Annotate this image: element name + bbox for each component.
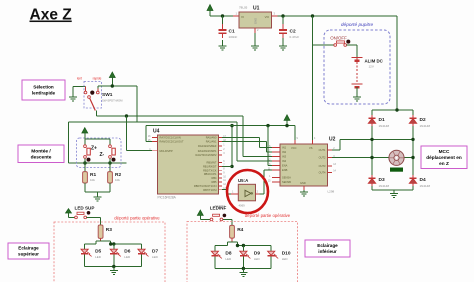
svg-text:ON/OFF: ON/OFF xyxy=(330,35,347,40)
svg-text:LEDINF: LEDINF xyxy=(210,206,227,211)
svg-text:0.47uF: 0.47uF xyxy=(290,35,300,39)
svg-text:IN4: IN4 xyxy=(282,159,287,163)
svg-text:OUT3: OUT3 xyxy=(319,164,326,168)
svg-text:descente: descente xyxy=(31,154,52,160)
svg-text:ENB: ENB xyxy=(282,168,288,172)
svg-text:RA1/AN1: RA1/AN1 xyxy=(206,140,217,144)
svg-text:déporté partie opérative: déporté partie opérative xyxy=(114,216,160,221)
svg-text:100nF: 100nF xyxy=(229,35,238,39)
svg-text:LED: LED xyxy=(95,255,102,259)
svg-text:VCC: VCC xyxy=(291,146,297,150)
svg-text:RB0/INT: RB0/INT xyxy=(207,161,217,165)
svg-text:ALIM DC: ALIM DC xyxy=(365,59,384,64)
svg-text:RB4: RB4 xyxy=(211,176,217,180)
svg-text:IN3: IN3 xyxy=(282,155,287,159)
svg-text:inférieur: inférieur xyxy=(318,249,337,254)
svg-text:RA4/T0CKI/CMP2: RA4/T0CKI/CMP2 xyxy=(195,153,217,157)
svg-text:1N4148: 1N4148 xyxy=(420,184,431,188)
svg-text:U4: U4 xyxy=(153,129,160,135)
svg-text:1N4148: 1N4148 xyxy=(379,184,390,188)
svg-text:OUT1: OUT1 xyxy=(319,148,326,152)
svg-text:D2: D2 xyxy=(420,117,426,123)
svg-text:SENSB: SENSB xyxy=(282,180,291,184)
svg-text:SW1: SW1 xyxy=(102,92,113,98)
svg-text:lent/rapide: lent/rapide xyxy=(32,91,56,96)
svg-text:1N4148: 1N4148 xyxy=(420,124,431,128)
svg-text:D10: D10 xyxy=(282,251,291,257)
svg-text:ENA: ENA xyxy=(282,164,288,168)
svg-text:R4: R4 xyxy=(237,227,243,233)
svg-text:LED SUP: LED SUP xyxy=(75,206,95,211)
svg-text:10k: 10k xyxy=(90,178,95,182)
svg-text:GND: GND xyxy=(300,181,306,185)
svg-text:rapide: rapide xyxy=(93,77,102,81)
svg-text:R3: R3 xyxy=(106,227,112,233)
svg-text:Sélection: Sélection xyxy=(33,85,54,90)
svg-text:D3: D3 xyxy=(379,177,385,183)
svg-text:RB6/T1OSO/T1CKI: RB6/T1OSO/T1CKI xyxy=(194,184,217,188)
svg-text:OUT4: OUT4 xyxy=(319,170,326,174)
svg-text:MCLR/VPP: MCLR/VPP xyxy=(160,149,174,153)
svg-text:RA0/AN0: RA0/AN0 xyxy=(206,136,217,140)
svg-text:D9: D9 xyxy=(254,251,260,257)
svg-text:U5:A: U5:A xyxy=(238,178,249,183)
svg-text:LED: LED xyxy=(282,257,289,261)
svg-text:Eclairage: Eclairage xyxy=(317,243,338,248)
svg-text:Axe Z: Axe Z xyxy=(30,7,73,24)
svg-text:L298: L298 xyxy=(328,190,335,194)
svg-text:PIC16F628A: PIC16F628A xyxy=(158,196,177,200)
svg-text:en Z: en Z xyxy=(439,161,449,166)
svg-text:LED: LED xyxy=(152,255,159,259)
svg-text:Z+: Z+ xyxy=(91,146,97,152)
svg-text:C2: C2 xyxy=(290,29,296,35)
svg-text:déporté pupitre: déporté pupitre xyxy=(341,22,374,28)
svg-text:VO: VO xyxy=(265,15,270,19)
svg-text:Eclairage: Eclairage xyxy=(18,246,39,251)
svg-text:GND: GND xyxy=(254,18,258,24)
svg-text:lent: lent xyxy=(77,77,82,81)
svg-text:RA6/OSC2/CLKOUT: RA6/OSC2/CLKOUT xyxy=(160,140,184,144)
svg-text:RB2/TX/CK: RB2/TX/CK xyxy=(203,168,217,172)
svg-text:IN2: IN2 xyxy=(282,150,287,154)
svg-text:Montée /: Montée / xyxy=(31,148,51,154)
svg-text:12V: 12V xyxy=(369,64,374,68)
svg-text:IN1: IN1 xyxy=(282,146,287,150)
svg-text:supérieur: supérieur xyxy=(18,252,39,257)
svg-text:déplacement en: déplacement en xyxy=(426,155,462,160)
svg-text:SW-SPDT-MOM: SW-SPDT-MOM xyxy=(102,99,123,103)
svg-text:RA7/OSC1/CLKIN: RA7/OSC1/CLKIN xyxy=(160,136,181,140)
svg-text:MCC: MCC xyxy=(439,149,450,154)
svg-text:D5: D5 xyxy=(95,249,101,255)
svg-text:RB1/RX/DT: RB1/RX/DT xyxy=(203,165,217,169)
svg-text:RB7/T1OSI: RB7/T1OSI xyxy=(203,188,217,192)
svg-text:SENSA: SENSA xyxy=(282,176,291,180)
svg-text:D4: D4 xyxy=(420,177,426,183)
svg-text:D8: D8 xyxy=(225,251,231,257)
svg-text:U1: U1 xyxy=(253,6,260,12)
svg-text:Z-: Z- xyxy=(100,152,105,158)
svg-text:C1: C1 xyxy=(229,29,235,35)
svg-text:U2: U2 xyxy=(329,137,336,143)
svg-text:D6: D6 xyxy=(124,249,130,255)
svg-text:D1: D1 xyxy=(379,117,385,123)
svg-text:VS: VS xyxy=(309,146,313,150)
svg-text:LED: LED xyxy=(124,255,131,259)
svg-text:1N4148: 1N4148 xyxy=(379,124,390,128)
svg-text:D7: D7 xyxy=(152,249,158,255)
svg-text:RB3/CCP1: RB3/CCP1 xyxy=(204,172,217,176)
svg-text:RA2/AN2/VREF: RA2/AN2/VREF xyxy=(198,144,217,148)
svg-text:4069: 4069 xyxy=(239,204,246,208)
svg-text:RA3/AN3/CMP1: RA3/AN3/CMP1 xyxy=(198,149,217,153)
svg-text:OUT2: OUT2 xyxy=(319,156,326,160)
svg-text:VI: VI xyxy=(241,15,244,19)
svg-text:LED: LED xyxy=(225,257,232,261)
svg-text:déporté partie opérative: déporté partie opérative xyxy=(245,213,291,218)
svg-text:LED: LED xyxy=(254,257,261,261)
svg-text:RB5: RB5 xyxy=(211,180,217,184)
svg-text:10k: 10k xyxy=(115,178,120,182)
svg-text:78L05: 78L05 xyxy=(239,6,248,10)
